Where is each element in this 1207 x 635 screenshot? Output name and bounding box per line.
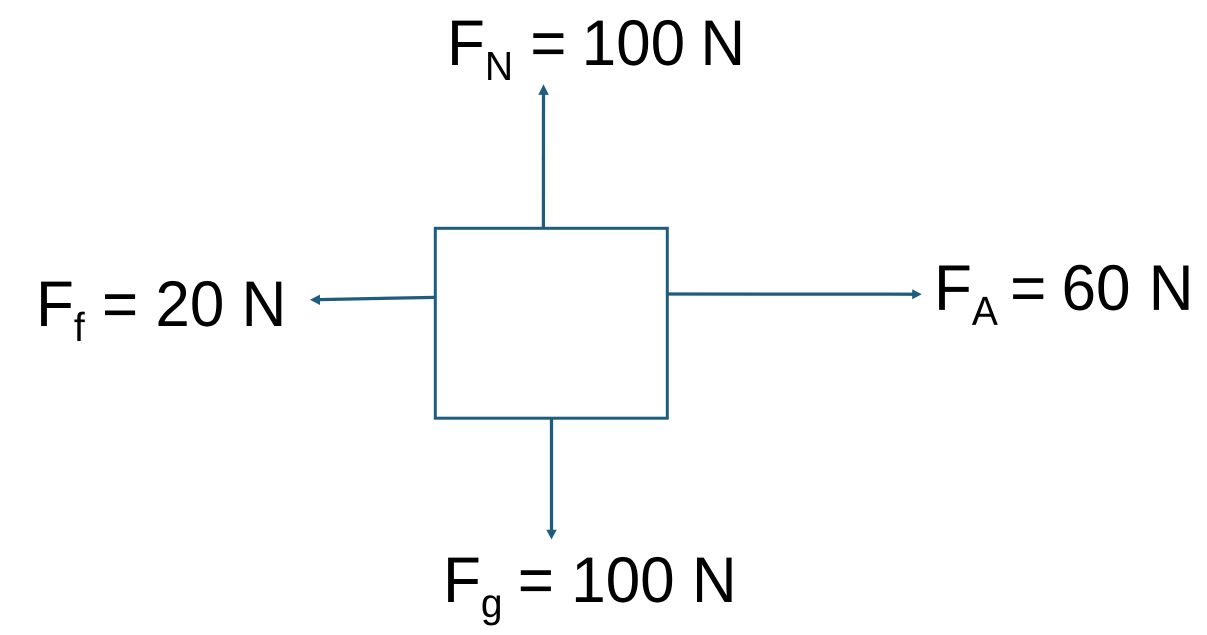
label F_A = 60 N <box>939 265 1188 325</box>
object box <box>435 228 667 418</box>
normal force arrow F_N (up) <box>538 84 549 228</box>
applied force arrow F_A (right) <box>667 289 921 299</box>
gravity force arrow F_g (down) <box>546 418 556 539</box>
label F_f = 20 N <box>41 281 281 341</box>
label F_g = 100 N <box>448 557 731 626</box>
label F_N = 100 N <box>452 20 740 80</box>
friction force arrow F_f (left) <box>310 295 435 305</box>
